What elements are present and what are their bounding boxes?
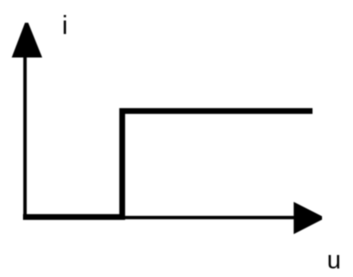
- u axis (horizontal wire): [24, 216, 295, 219]
- u axis arrowhead: [294, 202, 322, 234]
- i axis (vertical wire): [23, 45, 26, 219]
- svg-text:u: u: [327, 247, 341, 275]
- i axis arrowhead: [12, 23, 43, 58]
- svg-text:i: i: [62, 10, 68, 40]
- step function curve: [23, 111, 313, 217]
